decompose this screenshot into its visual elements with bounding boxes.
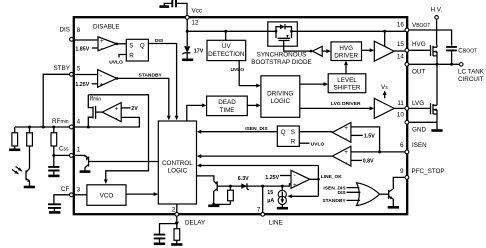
svg-text:R: R bbox=[291, 139, 296, 146]
svg-text:+: + bbox=[293, 182, 297, 189]
block Ifmin regulator bbox=[88, 95, 148, 184]
svg-text:STANDBY: STANDBY bbox=[139, 73, 163, 79]
svg-text:LVG: LVG bbox=[412, 100, 424, 107]
svg-text:ISEN: ISEN bbox=[412, 142, 427, 149]
resistor RD delay bbox=[171, 229, 182, 245]
svg-text:LC TANK: LC TANK bbox=[458, 69, 485, 76]
transistor Q7 LINE clamp bbox=[197, 176, 218, 204]
ground bbox=[388, 206, 399, 209]
svg-text:SYNCHRONOUS: SYNCHRONOUS bbox=[257, 52, 307, 59]
ground bbox=[9, 149, 20, 152]
svg-text:15: 15 bbox=[267, 190, 273, 196]
ground bbox=[208, 205, 219, 208]
buffer bootstrap gate driver bbox=[310, 46, 331, 56]
ground bbox=[24, 186, 35, 189]
capacitor CBOOT bbox=[446, 47, 477, 64]
resistor R internal LINE bbox=[228, 186, 234, 204]
wire control logic to dead time bbox=[187, 105, 203, 121]
svg-text:DIS: DIS bbox=[155, 38, 164, 44]
svg-text:CIRCUIT: CIRCUIT bbox=[458, 76, 484, 83]
svg-text:Q: Q bbox=[281, 129, 286, 136]
wire ISEN_DIS net to control logic bbox=[201, 131, 277, 133]
wire HVG to Q4 gate bbox=[409, 49, 430, 51]
node Vcc pin 12 bbox=[185, 16, 189, 20]
transistor Q3 soft-start discharge bbox=[73, 155, 158, 171]
transistor Q6 PFC_STOP bbox=[388, 177, 405, 207]
svg-text:DEAD: DEAD bbox=[218, 99, 236, 106]
svg-text:PFC_STOP: PFC_STOP bbox=[412, 168, 445, 175]
svg-text:-: - bbox=[115, 115, 117, 122]
svg-text:S: S bbox=[291, 129, 295, 136]
svg-text:CF: CF bbox=[61, 186, 70, 193]
wire UVLO to driving logic bbox=[239, 61, 257, 86]
svg-text:6: 6 bbox=[400, 142, 404, 149]
svg-text:VCO: VCO bbox=[100, 193, 114, 200]
svg-text:DISABLE: DISABLE bbox=[93, 24, 120, 31]
wire LVG DRIVER line bbox=[300, 107, 370, 109]
svg-text:UVLO: UVLO bbox=[231, 67, 245, 73]
op-amp comparator 0.8V bbox=[332, 146, 374, 166]
wire ISEN node bbox=[351, 151, 405, 153]
op-amp RFmin follower bbox=[102, 103, 121, 122]
svg-text:5: 5 bbox=[77, 66, 81, 73]
svg-text:H.V.: H.V. bbox=[431, 7, 443, 14]
transistor optocoupler photo bbox=[12, 167, 35, 188]
gate OR PFC bbox=[322, 183, 388, 206]
svg-text:10: 10 bbox=[397, 112, 405, 119]
svg-text:S: S bbox=[129, 42, 133, 49]
svg-text:17V: 17V bbox=[194, 48, 204, 54]
node Vs supply bbox=[381, 84, 388, 98]
transistor Q5 low-side MOSFET bbox=[431, 64, 438, 122]
latch FF2 ISEN_DIS bbox=[277, 126, 332, 147]
wire Css external bbox=[54, 154, 70, 156]
wire LINE_OK net bbox=[310, 178, 319, 180]
wire feedback bbox=[88, 117, 139, 127]
svg-text:8: 8 bbox=[77, 27, 81, 34]
pin DELAY 2 bbox=[176, 204, 178, 213]
ground bbox=[48, 175, 59, 178]
svg-text:14: 14 bbox=[397, 54, 405, 61]
buffer LVG output bbox=[374, 98, 405, 118]
svg-text:DELAY: DELAY bbox=[185, 220, 206, 227]
svg-text:+: + bbox=[115, 106, 119, 113]
wire dead time to driving logic bbox=[247, 104, 256, 106]
svg-text:0.8V: 0.8V bbox=[363, 159, 374, 165]
svg-text:HVG: HVG bbox=[339, 45, 353, 52]
wire GND node bbox=[409, 121, 437, 123]
wire UVLO to FF1 R input bbox=[119, 55, 126, 58]
transistor Q4 high-side MOSFET bbox=[431, 45, 438, 64]
svg-text:BOOTSTRAP DIODE: BOOTSTRAP DIODE bbox=[251, 59, 311, 66]
svg-text:+: + bbox=[344, 149, 348, 156]
ground right side bbox=[436, 122, 438, 129]
svg-text:LVG DRIVER: LVG DRIVER bbox=[331, 101, 361, 107]
diode bootstrap bbox=[268, 30, 298, 32]
svg-text:+: + bbox=[100, 38, 104, 45]
svg-text:DRIVING: DRIVING bbox=[267, 90, 293, 97]
svg-text:1.25V: 1.25V bbox=[265, 175, 279, 181]
ground bbox=[277, 207, 288, 210]
op-amp comparator 1.5V bbox=[332, 123, 379, 152]
block HVG DRIVER bbox=[331, 42, 362, 61]
wire STBY external to RFmin divider bbox=[43, 74, 69, 127]
svg-text:16: 16 bbox=[397, 21, 405, 28]
block UV DETECTION bbox=[207, 31, 246, 60]
svg-text:+: + bbox=[344, 125, 348, 132]
wire DELAY external node bbox=[176, 216, 178, 229]
wire STBY to comparator bbox=[73, 74, 97, 76]
svg-text:1.5V: 1.5V bbox=[364, 134, 375, 140]
svg-text:DIS: DIS bbox=[60, 27, 71, 34]
svg-text:VBOOT: VBOOT bbox=[412, 22, 430, 29]
op-amp STBY comparator bbox=[98, 70, 119, 89]
svg-text:Vs: Vs bbox=[381, 84, 388, 91]
svg-text:DIS: DIS bbox=[338, 190, 347, 196]
svg-text:2V: 2V bbox=[131, 106, 138, 112]
IC body outline U1 bbox=[74, 17, 407, 214]
svg-text:+: + bbox=[100, 81, 104, 88]
op-amp DISABLE comparator bbox=[98, 37, 118, 52]
svg-text:ISEN_DIS: ISEN_DIS bbox=[245, 126, 268, 132]
op-amp comparator LINE 1.25V bbox=[265, 170, 310, 189]
svg-text:LINE_OK: LINE_OK bbox=[321, 174, 343, 180]
ground bbox=[431, 129, 442, 132]
capacitor Css external bbox=[48, 155, 59, 176]
svg-text:LOGIC: LOGIC bbox=[168, 168, 188, 175]
wire DIS to comparator bbox=[73, 39, 98, 41]
resistor R2 to optocoupler bbox=[27, 127, 33, 169]
svg-text:-: - bbox=[345, 135, 347, 142]
ground bbox=[182, 58, 193, 61]
wire Vcc rail bbox=[187, 19, 407, 31]
wire LINE internal node bbox=[217, 184, 291, 186]
wire DIS net from FF1 Q bbox=[148, 44, 176, 116]
svg-text:6.3V: 6.3V bbox=[238, 176, 249, 182]
capacitor Vcc decoupling bbox=[159, 0, 187, 16]
block synchronous bootstrap diode bbox=[251, 22, 311, 66]
ground bbox=[159, 5, 169, 8]
svg-text:DRIVER: DRIVER bbox=[334, 53, 358, 60]
svg-text:-: - bbox=[100, 45, 102, 52]
block DRIVING LOGIC bbox=[261, 76, 300, 118]
svg-text:UV: UV bbox=[222, 43, 232, 50]
pin LINE 7 bbox=[262, 186, 264, 212]
ground bbox=[49, 211, 60, 214]
svg-text:LOGIC: LOGIC bbox=[270, 98, 290, 105]
block CONTROL LOGIC bbox=[158, 121, 196, 204]
wire 0.8V comparator to control logic bbox=[201, 155, 332, 157]
buffer HVG output bbox=[362, 31, 406, 61]
capacitor CD delay bbox=[154, 235, 166, 244]
svg-text:-: - bbox=[100, 73, 102, 80]
svg-text:LINE: LINE bbox=[269, 220, 283, 227]
svg-text:1.85V: 1.85V bbox=[75, 46, 89, 52]
wire internal ground LINE bbox=[214, 203, 231, 205]
svg-text:GND: GND bbox=[412, 126, 426, 133]
wire STANDBY net bbox=[117, 78, 169, 115]
current source 15uA bbox=[267, 186, 288, 208]
zener D3 6.3V bbox=[238, 176, 249, 190]
ground bbox=[154, 243, 165, 246]
svg-text:9: 9 bbox=[400, 168, 404, 175]
svg-text:SHIFTER: SHIFTER bbox=[334, 85, 361, 92]
svg-text:OUT: OUT bbox=[412, 69, 425, 76]
svg-text:Q: Q bbox=[140, 42, 145, 49]
svg-text:UVLO: UVLO bbox=[109, 60, 123, 66]
svg-text:Css: Css bbox=[59, 145, 69, 152]
capacitor CF external bbox=[48, 195, 70, 213]
wire level shifter to HVG driver bbox=[345, 65, 347, 74]
svg-text:µA: µA bbox=[267, 198, 274, 204]
transistor M1 bbox=[95, 106, 97, 119]
svg-text:CBOOT: CBOOT bbox=[458, 47, 477, 54]
svg-text:Ifmin: Ifmin bbox=[90, 96, 102, 103]
svg-text:4: 4 bbox=[77, 118, 81, 125]
svg-text:-: - bbox=[345, 159, 347, 166]
svg-text:-: - bbox=[294, 172, 296, 179]
svg-text:STANDBY: STANDBY bbox=[322, 198, 346, 204]
wire Ifmin to VCO bbox=[88, 95, 148, 180]
ground bbox=[80, 170, 91, 173]
transistor bootstrap MOSFET bbox=[276, 31, 292, 35]
svg-text:15: 15 bbox=[397, 41, 405, 48]
svg-text:TIME: TIME bbox=[219, 107, 234, 114]
wire LVG to Q5 gate bbox=[409, 107, 430, 109]
svg-text:HVG: HVG bbox=[412, 41, 426, 48]
svg-text:CONTROL: CONTROL bbox=[162, 160, 193, 167]
svg-text:R: R bbox=[129, 52, 134, 59]
svg-text:Vcc: Vcc bbox=[192, 8, 203, 15]
svg-text:DETECTION: DETECTION bbox=[208, 51, 245, 58]
svg-text:UVLO: UVLO bbox=[311, 141, 325, 147]
block DEAD TIME bbox=[207, 96, 248, 116]
resistor R3 RFmin to Css bbox=[51, 127, 57, 155]
resistor R1 RFmin to gnd bbox=[9, 127, 20, 150]
svg-text:3: 3 bbox=[77, 186, 81, 193]
latch FF1 S-R bbox=[117, 39, 149, 61]
wire Q3 base to control logic bbox=[89, 161, 159, 163]
svg-text:LEVEL: LEVEL bbox=[337, 77, 357, 84]
wire OUT node bbox=[409, 63, 460, 65]
svg-text:11: 11 bbox=[397, 100, 404, 107]
zener D2 17V bbox=[182, 32, 204, 60]
svg-text:RFmin: RFmin bbox=[52, 118, 69, 125]
wire RFmin external bbox=[15, 126, 70, 128]
wire VBOOT to CBOOT bbox=[409, 30, 452, 46]
svg-text:7: 7 bbox=[257, 207, 261, 214]
block VCO bbox=[73, 185, 158, 206]
svg-text:12: 12 bbox=[192, 20, 200, 27]
node 2V reference bbox=[121, 107, 130, 109]
ground bbox=[171, 243, 182, 246]
svg-text:STBY: STBY bbox=[54, 65, 71, 72]
svg-text:1.25V: 1.25V bbox=[75, 82, 89, 88]
svg-text:1: 1 bbox=[77, 146, 81, 153]
block LEVEL SHIFTER bbox=[300, 61, 366, 93]
wire bootstrap gate bbox=[284, 46, 310, 51]
